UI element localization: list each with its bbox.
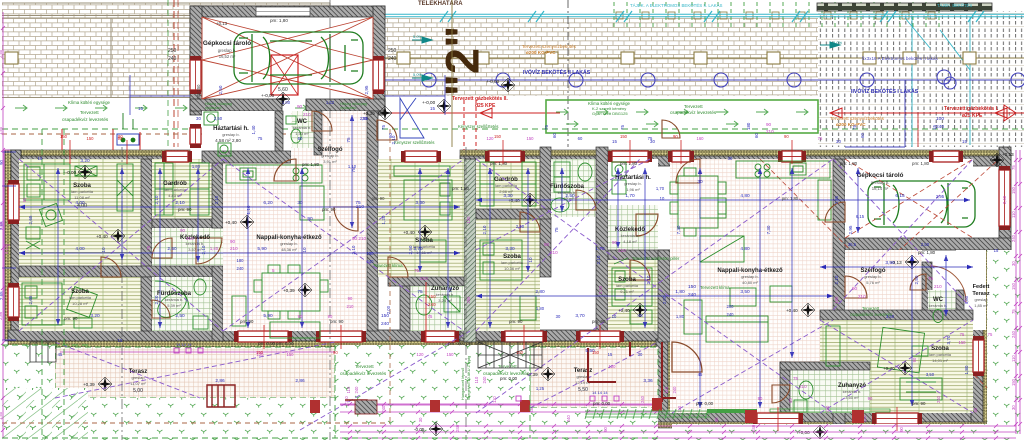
- svg-text:210: 210: [858, 294, 866, 299]
- svg-text:kerámia b.: kerámia b.: [929, 303, 948, 308]
- svg-text:90: 90: [348, 296, 353, 301]
- svg-text:160: 160: [697, 136, 705, 141]
- svg-text:150: 150: [447, 352, 455, 357]
- green dashed borders grass: [2, 129, 658, 440]
- szelfogo2 floor: [845, 250, 922, 312]
- svg-text:6,15: 6,15: [895, 193, 905, 199]
- svg-text:15: 15: [430, 106, 435, 111]
- svg-text:90: 90: [118, 136, 123, 141]
- wall szoba u2b right: [658, 250, 670, 342]
- svg-text:pm: 1,80: pm: 1,80: [912, 161, 930, 166]
- svg-text:+0,40: +0,40: [225, 220, 237, 225]
- axis dashdot verticals: [122, 0, 466, 440]
- svg-text:60: 60: [578, 136, 583, 141]
- window S3: [501, 331, 547, 342]
- north wall unit2 insul: [460, 150, 1011, 156]
- svg-text:240: 240: [566, 415, 571, 423]
- szoba1 floor: [19, 159, 141, 267]
- door S terr: [421, 331, 459, 342]
- svg-text:110: 110: [1011, 211, 1016, 218]
- svg-text:Kényszer szellőztetés: Kényszer szellőztetés: [394, 140, 435, 145]
- svg-text:240: 240: [751, 424, 756, 432]
- terasz2 floor: [530, 347, 658, 408]
- magenta bottom chains: [340, 402, 1016, 440]
- party wall: [464, 159, 476, 342]
- svg-text:30: 30: [556, 314, 561, 319]
- south wall unit2 low: [656, 411, 988, 422]
- svg-text:11,08 m²: 11,08 m²: [74, 195, 90, 200]
- bed szoba u2b: [612, 268, 652, 324]
- svg-text:2,65: 2,65: [0, 291, 4, 300]
- north wall unit1 insul: [8, 150, 190, 156]
- north wall unit1: [8, 156, 190, 166]
- svg-text:1,20: 1,20: [381, 215, 386, 224]
- svg-text:60: 60: [388, 133, 393, 138]
- svg-text:90: 90: [612, 240, 618, 245]
- svg-text:2,10: 2,10: [646, 275, 651, 284]
- svg-text:1,10: 1,10: [246, 205, 251, 214]
- wall gardrob-living: [212, 147, 223, 228]
- svg-text:greslap: greslap: [974, 297, 988, 302]
- svg-text:5,00: 5,00: [133, 388, 143, 394]
- svg-text:pm: 1,80: pm: 1,80: [620, 161, 638, 166]
- svg-text:kerámia b.: kerámia b.: [843, 389, 862, 394]
- furdoszoba1 floor: [152, 277, 212, 331]
- window N2b: [608, 151, 652, 162]
- svg-text:TÁJÉK. A ELEKTROMOS BEKÖTÉS II: TÁJÉK. A ELEKTROMOS BEKÖTÉS II. LAKÁS: [630, 3, 723, 8]
- svg-text:75: 75: [818, 136, 823, 141]
- wall furdo2 right: [596, 147, 608, 331]
- svg-text:240: 240: [168, 56, 177, 62]
- svg-text:150: 150: [688, 284, 696, 290]
- svg-text:180: 180: [746, 122, 751, 130]
- grass bottom strip2: [530, 408, 658, 440]
- svg-text:240: 240: [388, 56, 397, 62]
- svg-text:+-0,00: +-0,00: [486, 79, 500, 84]
- svg-text:kerámia b.: kerámia b.: [186, 241, 205, 246]
- svg-text:1,70: 1,70: [595, 246, 605, 252]
- svg-text:200: 200: [727, 304, 735, 309]
- svg-text:pm: 0,00: pm: 0,00: [593, 401, 611, 406]
- svg-text:pm: 1,80: pm: 1,80: [302, 162, 320, 167]
- svg-text:30: 30: [973, 407, 978, 412]
- garage1 bottom wall: [190, 99, 282, 111]
- magenta mid chain u1 bottom: [60, 352, 660, 405]
- wardrobe gardrob1: [155, 163, 209, 215]
- svg-text:110: 110: [346, 386, 351, 393]
- svg-text:Hungarocell lépcső: Hungarocell lépcső: [461, 368, 465, 400]
- svg-text:30: 30: [836, 139, 841, 144]
- svg-text:1,80: 1,80: [536, 306, 545, 311]
- svg-text:pm: 90: pm: 90: [592, 319, 606, 324]
- furdoszoba1 fixtures: [153, 279, 208, 329]
- svg-text:lam parketta: lam parketta: [69, 295, 92, 300]
- svg-text:nyílászáró: nyílászáró: [205, 106, 221, 110]
- svg-text:45: 45: [788, 398, 793, 403]
- svg-text:2,95: 2,95: [364, 85, 369, 94]
- svg-text:3,50: 3,50: [740, 289, 750, 295]
- svg-text:pm: 90: pm: 90: [372, 196, 385, 201]
- klima unit box: [117, 113, 139, 145]
- svg-text:1,25: 1,25: [536, 386, 545, 391]
- svg-text:255: 255: [466, 296, 471, 304]
- svg-text:2,95: 2,95: [936, 194, 945, 199]
- svg-text:240: 240: [672, 386, 677, 394]
- svg-text:1,96 m²: 1,96 m²: [626, 187, 640, 192]
- svg-text:210: 210: [420, 276, 428, 281]
- window N2c: [668, 151, 694, 162]
- window garage1L: [190, 56, 201, 94]
- desk szoba1: [26, 203, 63, 249]
- svg-text:240: 240: [381, 405, 386, 413]
- svg-text:35,5: 35,5: [848, 242, 857, 247]
- svg-text:2,86: 2,86: [0, 311, 3, 320]
- svg-text:pm: 90: pm: 90: [330, 319, 344, 324]
- svg-text:5,50: 5,50: [578, 387, 588, 393]
- blue dim chain y200 u2: [476, 198, 970, 202]
- svg-text:csapadékvíz levezetés: csapadékvíz levezetés: [340, 371, 387, 376]
- svg-text:pm: 90: pm: 90: [178, 207, 192, 212]
- water line blue with circles: [332, 70, 1024, 147]
- svg-text:2,10: 2,10: [351, 245, 356, 254]
- garage1 right wall: [373, 6, 385, 115]
- window W2: [8, 283, 19, 321]
- svg-text:+0,00: +0,00: [798, 430, 810, 435]
- svg-text:60: 60: [298, 136, 303, 141]
- zuhanyzo2 wall: [780, 362, 790, 413]
- svg-text:90: 90: [766, 122, 772, 127]
- garage1 car: [234, 32, 363, 84]
- svg-text:"2": "2": [436, 26, 489, 97]
- green dashed axis left: [167, 0, 169, 147]
- svg-text:30: 30: [697, 179, 703, 185]
- svg-text:75: 75: [960, 332, 965, 337]
- svg-text:110: 110: [677, 405, 682, 412]
- svg-text:240: 240: [428, 302, 436, 307]
- garage1 red opening: [271, 55, 298, 95]
- tv nappali2: [700, 236, 792, 302]
- szoba u2c floor: [820, 320, 973, 413]
- szoba u2c wall top: [820, 310, 973, 320]
- svg-text:pm: 0,00: pm: 0,00: [500, 376, 518, 381]
- wall fedett: [956, 290, 964, 320]
- svg-text:4,00: 4,00: [75, 200, 85, 206]
- svg-text:75: 75: [417, 289, 423, 295]
- svg-text:9,21 m²: 9,21 m²: [620, 289, 634, 294]
- left edge dim marks: [2, 152, 16, 340]
- svg-text:1,50: 1,50: [0, 411, 3, 420]
- svg-text:240: 240: [354, 386, 359, 394]
- svg-text:lam parketta: lam parketta: [616, 283, 639, 288]
- wc1 fixtures: [286, 116, 301, 143]
- svg-text:240: 240: [367, 259, 375, 264]
- svg-text:15: 15: [118, 338, 123, 343]
- sofa nappali1: [232, 186, 324, 326]
- svg-text:Fedett: Fedett: [973, 284, 990, 290]
- szoba u2a floor: [476, 219, 540, 331]
- svg-text:Tervezett: Tervezett: [355, 364, 374, 369]
- svg-text:250: 250: [388, 48, 397, 54]
- svg-text:+0,40: +0,40: [403, 230, 415, 235]
- pm texts: [64, 161, 936, 406]
- wardrobe gardrob2: [480, 162, 536, 206]
- wall szoba3 bottom: [388, 277, 464, 286]
- svg-text:210: 210: [347, 304, 355, 309]
- tiny dim scatter: [38, 100, 999, 401]
- svg-text:Tervezett: Tervezett: [862, 306, 880, 311]
- svg-text:90: 90: [868, 396, 873, 401]
- blue dim chain szoba u2c: [820, 265, 973, 269]
- svg-text:1,85 m²: 1,85 m²: [974, 303, 988, 308]
- svg-text:14,01 m²: 14,01 m²: [932, 358, 948, 363]
- property line cyan top: [332, 11, 1024, 147]
- svg-text:75: 75: [146, 245, 151, 250]
- svg-text:lam parketta: lam parketta: [71, 189, 94, 194]
- svg-text:pm: 90: pm: 90: [64, 316, 78, 321]
- svg-text:2,20: 2,20: [154, 295, 159, 304]
- svg-text:1,62: 1,62: [326, 100, 335, 105]
- svg-text:10: 10: [660, 196, 665, 201]
- top garage dim marks: [130, 75, 445, 115]
- svg-text:210: 210: [550, 250, 558, 255]
- svg-text:5,39 m²: 5,39 m²: [167, 303, 181, 308]
- svg-text:pm: 1,80: pm: 1,80: [918, 250, 936, 255]
- svg-text:Szegélykő 20 AKU Z léptg: Szegélykő 20 AKU Z léptg: [467, 356, 471, 400]
- svg-text:75: 75: [381, 125, 386, 130]
- bed szoba1: [24, 164, 133, 211]
- wc2 fixtures: [912, 310, 943, 357]
- svg-text:1,40: 1,40: [210, 246, 219, 251]
- svg-text:2,95: 2,95: [834, 195, 839, 204]
- svg-text:pm: 90: pm: 90: [240, 319, 254, 324]
- wc2 floor: [928, 290, 956, 326]
- svg-text:3,30: 3,30: [415, 200, 425, 206]
- svg-text:90: 90: [758, 396, 763, 401]
- szoba3 floor: [378, 159, 464, 277]
- svg-text:Tervezett gázbekötés I.: Tervezett gázbekötés I.: [944, 106, 999, 112]
- plot line dashdot vertical: [567, 0, 569, 147]
- svg-text:2,10: 2,10: [175, 200, 185, 206]
- svg-text:10: 10: [302, 247, 307, 253]
- svg-text:90: 90: [230, 239, 236, 244]
- olive square marks strip: [616, 12, 935, 19]
- svg-text:3,70: 3,70: [413, 246, 423, 252]
- wall u2a right: [540, 147, 551, 277]
- svg-text:90: 90: [0, 160, 4, 165]
- wall szoba1-gardrob: [141, 159, 152, 267]
- sewer line olive with boxes: [5, 52, 1024, 64]
- svg-text:+0,40: +0,40: [883, 366, 895, 371]
- svg-text:7,30: 7,30: [766, 225, 771, 234]
- window S1: [234, 331, 292, 342]
- green strip bottom right: [707, 409, 757, 413]
- svg-text:60: 60: [754, 133, 759, 138]
- svg-text:2,95: 2,95: [360, 116, 369, 121]
- svg-text:75: 75: [1011, 165, 1016, 170]
- svg-text:2,65: 2,65: [28, 215, 33, 224]
- red dashed axis left: [173, 0, 175, 147]
- window S4: [576, 331, 624, 342]
- svg-text:Gépkocsi tároló: Gépkocsi tároló: [203, 40, 251, 47]
- svg-text:4,58 m² 2,80: 4,58 m² 2,80: [215, 138, 241, 143]
- zuhanyzo2 fixtures: [794, 381, 813, 412]
- magenta door dims: [180, 104, 942, 389]
- svg-text:90: 90: [603, 426, 608, 431]
- svg-text:+0,39: +0,39: [283, 288, 295, 293]
- svg-text:30: 30: [418, 417, 423, 422]
- window S2a: [753, 413, 803, 424]
- svg-text:greslap b.: greslap b.: [864, 274, 882, 279]
- green arrows in drainage box: [556, 109, 808, 127]
- kitchen nappali2: [736, 161, 831, 220]
- bed szoba u2c: [826, 326, 942, 400]
- grass center: [335, 345, 530, 440]
- svg-text:2,65: 2,65: [0, 221, 3, 230]
- svg-text:90: 90: [333, 350, 338, 355]
- svg-text:75: 75: [928, 276, 934, 281]
- svg-text:15: 15: [608, 352, 613, 357]
- red blocks bottom row: [310, 398, 864, 423]
- svg-text:30: 30: [196, 116, 201, 121]
- garage2 right wall: [999, 147, 1011, 250]
- svg-text:+0,13: +0,13: [216, 21, 228, 26]
- svg-text:150: 150: [287, 352, 295, 357]
- svg-text:7,30: 7,30: [676, 225, 681, 234]
- svg-text:+0,40: +0,40: [96, 234, 108, 239]
- svg-text:240: 240: [482, 376, 487, 384]
- zuhanyzo2 floor: [790, 370, 870, 413]
- svg-text:pm: 1,80: pm: 1,80: [452, 186, 470, 191]
- svg-text:210: 210: [766, 129, 774, 134]
- grass bottom-left2: [2, 398, 335, 440]
- svg-text:3,30: 3,30: [505, 246, 515, 252]
- bed szoba u2a: [480, 240, 536, 320]
- svg-text:15: 15: [138, 106, 143, 111]
- window E1: [973, 336, 984, 376]
- svg-text:2,10: 2,10: [482, 225, 487, 234]
- red dim texts small: [60, 134, 789, 355]
- svg-text:75: 75: [258, 136, 263, 141]
- svg-text:240: 240: [237, 266, 245, 271]
- svg-text:3,20: 3,20: [90, 313, 100, 319]
- svg-text:90: 90: [297, 104, 303, 109]
- svg-text:150: 150: [959, 340, 967, 345]
- svg-text:2,95: 2,95: [848, 225, 853, 234]
- west wall unit1: [11, 150, 21, 341]
- svg-text:4,00: 4,00: [75, 246, 85, 252]
- svg-text:75: 75: [620, 125, 625, 130]
- svg-text:ø200 KG-PVC: ø200 KG-PVC: [526, 50, 556, 55]
- svg-text:90: 90: [328, 314, 333, 319]
- svg-text:75: 75: [448, 287, 453, 293]
- red axis verticals left band: [62, 100, 476, 150]
- svg-text:90: 90: [912, 357, 917, 362]
- svg-text:1,40: 1,40: [251, 125, 256, 134]
- wall u2 mid h: [476, 209, 551, 219]
- svg-text:6,15: 6,15: [856, 214, 865, 219]
- stairs left bottom: [30, 342, 56, 362]
- svg-text:90: 90: [899, 426, 904, 431]
- svg-text:30: 30: [1011, 261, 1016, 266]
- kenyszer szellozes blue: [400, 98, 424, 138]
- svg-text:90: 90: [544, 242, 550, 247]
- nappali2 floor: [670, 159, 833, 413]
- window garage1R: [373, 56, 384, 94]
- svg-text:240: 240: [455, 424, 460, 432]
- svg-text:fix3x16 A Elektromos bekötés I: fix3x16 A Elektromos bekötés II lakás: [862, 56, 939, 61]
- svg-text:120: 120: [609, 364, 617, 369]
- furdoszoba2 fixtures: [551, 162, 592, 212]
- svg-text:3,50: 3,50: [885, 260, 895, 266]
- svg-text:30: 30: [638, 352, 643, 357]
- garage2 cross red dashed: [760, 159, 999, 400]
- red axis at terasz2 door: [425, 282, 427, 342]
- south wall mid unit2 insul: [460, 341, 672, 347]
- blue dim chain y310: [476, 294, 833, 298]
- svg-text:10: 10: [612, 314, 617, 319]
- stairs center bottom: [478, 342, 542, 368]
- room labels unit2: [494, 175, 990, 400]
- wall gardrob bottom: [152, 219, 212, 228]
- south wall unit1: [8, 330, 460, 341]
- window W1: [8, 180, 19, 224]
- furdoszoba2 floor: [551, 159, 596, 217]
- bed szoba3: [394, 166, 452, 262]
- svg-text:30: 30: [728, 156, 733, 161]
- svg-text:75: 75: [346, 137, 351, 143]
- garage1 door leaf: [256, 7, 310, 16]
- roof diagonals violet: [19, 159, 973, 430]
- svg-text:5,90: 5,90: [263, 313, 273, 319]
- svg-text:+-0,00: +-0,00: [63, 170, 77, 175]
- island nappali2: [700, 198, 726, 218]
- svg-text:+0,13: +0,13: [1002, 152, 1014, 157]
- svg-text:150: 150: [527, 136, 535, 141]
- svg-text:2,10: 2,10: [214, 195, 219, 204]
- svg-text:pm: 90: pm: 90: [509, 319, 523, 324]
- kozlekedo1 floor: [152, 228, 223, 266]
- svg-text:3,36: 3,36: [643, 378, 653, 384]
- svg-text:2,86: 2,86: [215, 378, 225, 384]
- garage1 floor: [202, 17, 373, 99]
- bed szoba2: [22, 283, 97, 328]
- svg-text:90: 90: [298, 314, 303, 319]
- szoba2 floor: [19, 277, 141, 331]
- svg-text:3,60 m²: 3,60 m²: [845, 395, 859, 400]
- svg-text:90: 90: [673, 134, 678, 139]
- window garage2N: [929, 151, 963, 162]
- svg-text:210: 210: [799, 384, 807, 389]
- svg-text:150: 150: [1011, 282, 1016, 290]
- svg-text:240: 240: [381, 321, 389, 327]
- kitchen counter nappali1: [226, 165, 322, 183]
- wc1 wall right: [314, 111, 322, 155]
- svg-text:90: 90: [784, 134, 789, 139]
- svg-text:pm: 1,80: pm: 1,80: [840, 161, 858, 166]
- green drainage box unit2: [546, 100, 818, 133]
- sofa nappali2: [684, 288, 768, 342]
- svg-text:90: 90: [852, 286, 858, 291]
- svg-text:kerámia b.: kerámia b.: [293, 125, 312, 130]
- svg-text:3,50: 3,50: [926, 372, 935, 377]
- svg-text:90: 90: [180, 228, 186, 233]
- window S2: [316, 331, 366, 342]
- svg-text:210: 210: [186, 236, 194, 241]
- green hatch strip bottom right of unit2: [585, 409, 710, 419]
- svg-text:pm: 1,80: pm: 1,80: [782, 196, 799, 201]
- svg-text:210: 210: [356, 204, 364, 210]
- svg-text:+-0,00: +-0,00: [422, 100, 436, 105]
